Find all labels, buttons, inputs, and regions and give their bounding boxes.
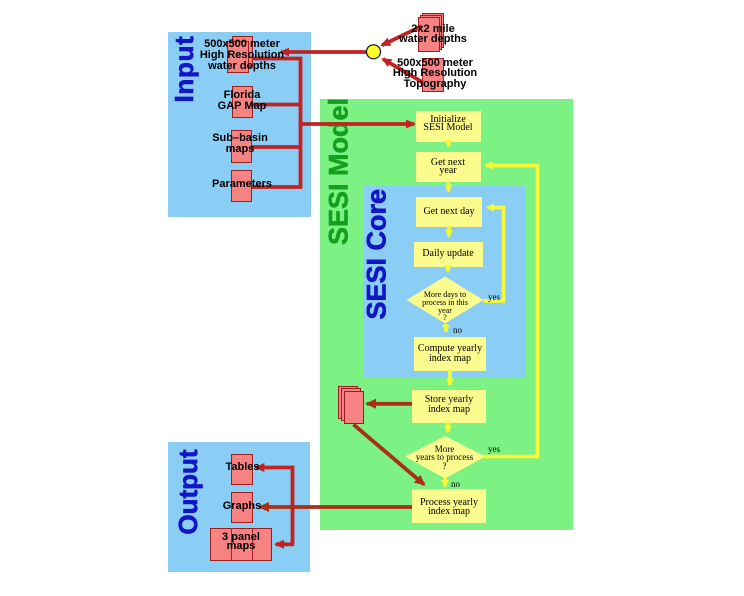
flow arrow: daily update to diamond 1 — [446, 266, 450, 272]
flow label: Get next year — [408, 159, 488, 176]
flow arrow: compute to store — [448, 370, 452, 385]
label: Sub-basin maps — [180, 133, 300, 155]
flow label: Get next day — [409, 208, 489, 216]
flow arrow: diamond 1 no to compute — [444, 324, 448, 332]
flow loop: yearly yes loop — [484, 166, 538, 457]
wire: GAP map to trunk — [253, 103, 302, 107]
arrow: topography to merge circle — [383, 59, 423, 83]
arrow: to Tables — [256, 466, 294, 470]
Input panel background — [168, 32, 311, 217]
data box: Tables — [231, 454, 253, 485]
flow label: no (yearly) — [451, 480, 460, 488]
flow label: yes (yearly loop) — [488, 445, 500, 453]
SESI Model panel background — [320, 99, 573, 530]
wire: input trunk vertical — [299, 57, 303, 189]
Output panel background — [168, 442, 310, 572]
flow arrow: diamond 2 no to process — [443, 478, 447, 487]
data stack: stored yearly index maps (front) — [344, 391, 364, 424]
flow label: Process yearly index map — [409, 498, 489, 516]
data stack: 2x2 mile water depths (mid) — [420, 15, 442, 50]
label: 3 panel maps — [181, 533, 301, 551]
decision diamond: More days to process in this year? — [407, 277, 484, 324]
title Input — [171, 34, 197, 104]
flow arrow: get next year to get next day — [447, 181, 451, 192]
label: 500x500 meter High Resolution Topography — [375, 58, 495, 90]
wire: process yearly index map to output trunk — [260, 505, 412, 509]
flow loop: daily yes loop — [484, 208, 504, 302]
label: Tables — [182, 462, 303, 473]
arrow: stack to process yearly index map (diagonal) — [354, 425, 425, 485]
process box: Daily update — [414, 242, 483, 267]
label: Florida GAP Map — [182, 90, 302, 112]
flow label: Daily update — [408, 250, 488, 258]
3 panel divider 2 — [252, 528, 253, 561]
data box: 3 panel maps — [210, 528, 272, 561]
flow label: no (daily) — [453, 326, 462, 334]
flow arrow: store to diamond 2 — [446, 422, 450, 432]
data box: 500x500 topography — [422, 58, 444, 92]
3 panel divider 1 — [231, 528, 232, 561]
flow arrow: get next day to daily update — [447, 226, 451, 237]
process box: Compute yearly index map — [414, 337, 486, 371]
data box: Parameters — [231, 170, 252, 202]
process box: Get next year — [416, 152, 481, 182]
flow label: Store yearly index map — [409, 395, 489, 414]
process box: Process yearly index map — [412, 489, 486, 523]
flow label: Compute yearly index map — [410, 344, 490, 363]
process box: Get next day — [416, 197, 482, 227]
arrow: inputs to Initialize SESI Model — [300, 122, 414, 126]
label: 2x2 mile water depths — [373, 24, 493, 44]
SESI Core panel background — [363, 186, 526, 378]
data stack: stored yearly index maps (back) — [338, 386, 358, 419]
title Output — [175, 447, 201, 537]
label: Parameters — [182, 179, 302, 190]
process box: Initialize SESI Model — [416, 111, 481, 142]
data box: Florida GAP Map — [232, 86, 253, 118]
title SESI Model — [325, 97, 352, 247]
data stack: 2x2 mile water depths (back) — [422, 13, 444, 48]
arrow: to 3 panel maps — [276, 542, 294, 546]
label: 500x500 meter High Resolution water depths — [182, 39, 302, 72]
flow arrow: initialize to get next year — [447, 141, 451, 147]
data box: 500x500 water depths (front page) — [227, 41, 249, 73]
wire: output trunk vertical — [291, 466, 295, 545]
wire: parameters to trunk — [252, 185, 302, 189]
arrow: store yearly index map to stack — [367, 402, 412, 406]
data stack: 2x2 mile water depths (front) — [418, 17, 440, 52]
flow label: yes (daily loop) — [488, 293, 500, 301]
flow label: diamond 2 text — [404, 445, 485, 471]
arrow: 2x2 stack to merge circle — [382, 26, 422, 45]
arrow: merge circle to water depths — [281, 50, 367, 54]
data box: Sub-basin maps — [231, 130, 252, 163]
label: Graphs — [182, 501, 302, 512]
wire: sub-basin to trunk — [252, 145, 302, 149]
data stack: stored yearly index maps (mid) — [341, 388, 361, 421]
flow label: diamond 1 text — [405, 291, 486, 322]
process box: Store yearly index map — [412, 390, 486, 423]
data box: Graphs — [231, 492, 253, 523]
flow label: Initialize SESI Model — [408, 116, 488, 133]
data box: 500x500 water depths (back page) — [232, 36, 253, 68]
wire: water depths to trunk — [252, 57, 302, 61]
title SESI Core — [364, 190, 391, 320]
decision diamond: More years to process? — [405, 436, 486, 479]
merge circle node — [367, 45, 381, 59]
